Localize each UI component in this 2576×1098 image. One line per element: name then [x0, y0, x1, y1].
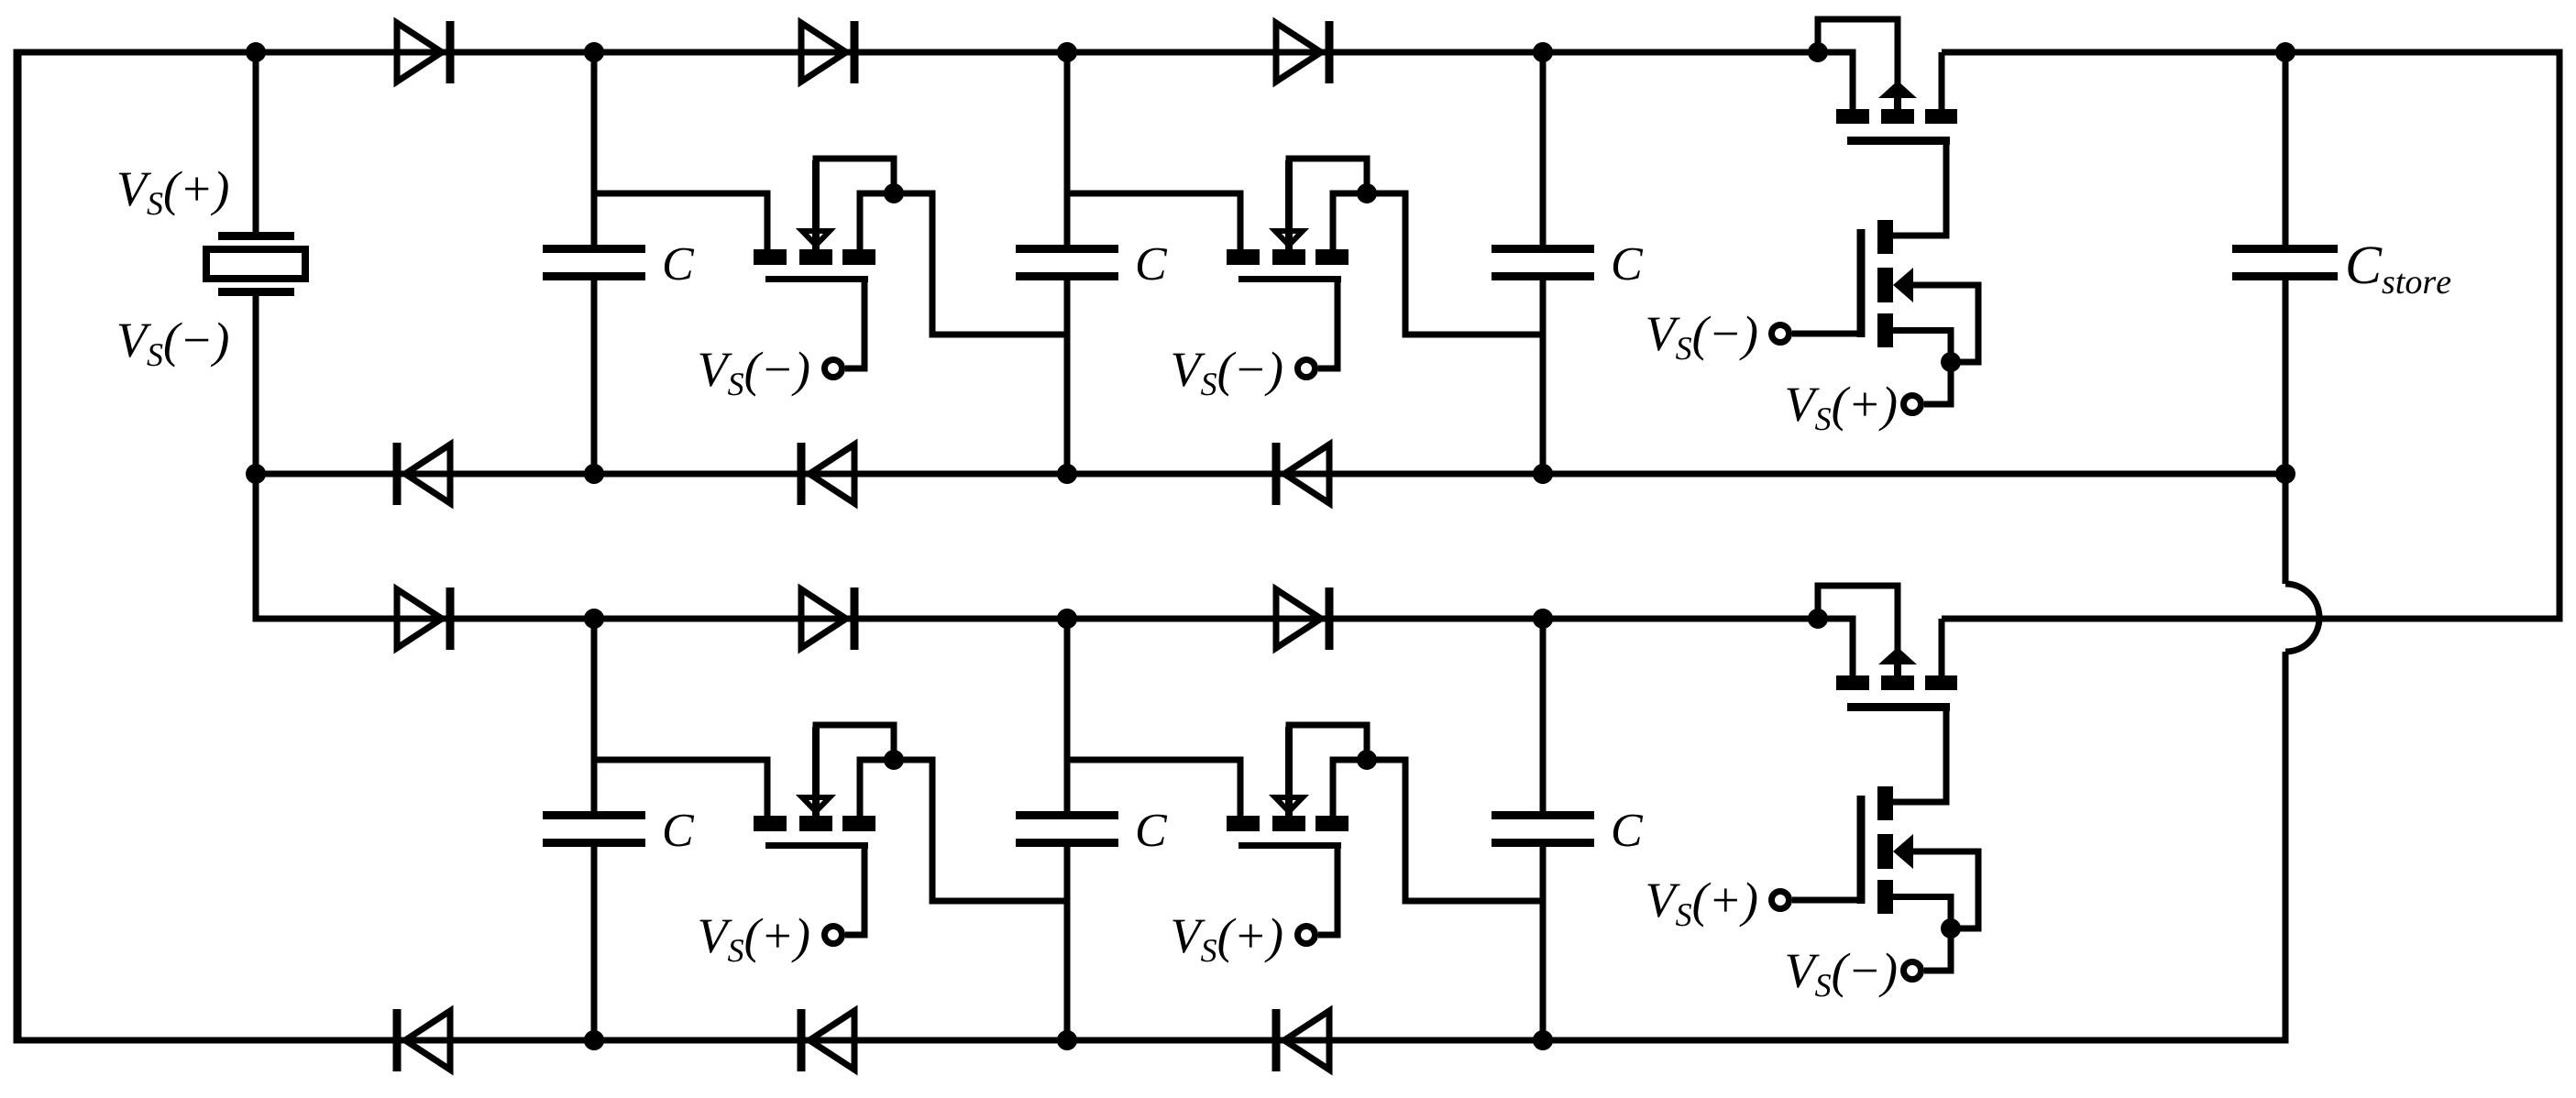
capacitor Cstore bottom lead — [2283, 280, 2289, 584]
label C value of C6 — [1613, 815, 1643, 847]
node mid-rail junction — [1533, 464, 1553, 484]
transistor Q3 source-bulk bracket — [1818, 586, 1898, 651]
wire M1 gate lead — [845, 280, 864, 369]
terminal Q4 gate control — [1772, 892, 1789, 909]
diode D10 (bottom rail, left-pointing) — [397, 1009, 450, 1071]
capacitor C4 top plate — [543, 811, 645, 819]
wire M2 gate lead — [1318, 280, 1338, 369]
wire left border — [14, 49, 22, 1044]
capacitor C4 bottom lead — [591, 847, 598, 1040]
capacitor C3 bottom lead — [1540, 280, 1547, 474]
transistor Q2 drain pad — [1877, 220, 1893, 254]
node Q2 source-bulk junction — [1941, 352, 1961, 372]
terminal M2 gate control — [1298, 360, 1316, 378]
transistor M1 tap wire from capacitor — [594, 193, 767, 249]
node C1 bottom-rail junction — [584, 464, 604, 484]
terminal Q4 source supply — [1904, 962, 1921, 980]
diode D9 (second rail, right-pointing) — [1276, 587, 1329, 650]
transistor Q1 bulk pad — [1881, 109, 1914, 124]
node M2 bulk-drain junction — [1357, 183, 1377, 203]
transistor Q3 source pad — [1836, 675, 1869, 690]
transistor M2 bulk arrow — [1275, 231, 1303, 246]
transistor Q2 bulk pad — [1877, 268, 1893, 302]
label C value of C3 — [1613, 248, 1643, 280]
wire top rail (right section) and right border — [1942, 52, 2559, 619]
capacitor C4 bottom plate — [543, 839, 645, 847]
transistor M4 tap wire from capacitor — [1067, 760, 1240, 816]
capacitor C2 bottom plate — [1016, 272, 1118, 280]
diode D5 (mid rail, left-pointing) — [801, 443, 854, 505]
transistor Q2 bulk arrow — [1893, 268, 1913, 302]
transistor M2 drain pad — [1316, 249, 1349, 265]
wire Q2 bulk tie — [1912, 285, 1978, 362]
transistor M2 bulk-drain bracket — [1289, 159, 1367, 231]
wire Q2 source tie — [1893, 331, 1951, 363]
transistor Q4 gate line — [1857, 796, 1866, 904]
capacitor C2 bottom lead — [1064, 280, 1071, 474]
node bottom-rail junction — [584, 1030, 604, 1050]
node C6 bottom-rail junction — [1533, 1030, 1553, 1050]
label VS(+) gate of M3 — [699, 918, 809, 963]
wire Q1 drain stub to rail — [1939, 52, 1945, 109]
node C4 bottom-rail junction — [584, 1030, 604, 1050]
wire Q1 source stub from rail — [1818, 52, 1853, 109]
node piezo top junction — [246, 42, 266, 62]
label VS(+) source of Q2 — [1787, 387, 1896, 432]
wire top rail (left section) — [14, 49, 1819, 56]
wire Q3 gate lead down — [1943, 710, 1950, 802]
transistor M3 bulk pad — [799, 816, 832, 831]
capacitor C5 bottom plate — [1016, 839, 1118, 847]
wire Q2 drain to Q1 gate — [1893, 233, 1950, 239]
transistor Q1 gate plate — [1847, 137, 1950, 145]
label C value of C1 — [665, 248, 694, 280]
capacitor C1 bottom plate — [543, 272, 645, 280]
transistor M4 bulk arrow shaft — [1285, 727, 1293, 816]
capacitor Cstore top plate — [2232, 245, 2338, 253]
transistor Q1 drain pad — [1925, 109, 1957, 124]
transistor M3 source pad — [754, 816, 787, 831]
node top-rail junction — [1533, 42, 1553, 62]
wire Q4 gate terminal lead — [1792, 897, 1861, 904]
wire Q3 drain stub to rail — [1939, 619, 1945, 675]
node M4 bulk-drain junction — [1357, 750, 1377, 770]
transistor M3 drain pad — [842, 816, 875, 831]
capacitor C3 top plate — [1492, 245, 1594, 253]
terminal Q2 source supply — [1904, 396, 1921, 413]
capacitor C6 top lead — [1540, 619, 1547, 811]
diode D2 (top rail, right-pointing) — [801, 21, 854, 83]
capacitor C6 bottom lead — [1540, 847, 1547, 1040]
transistor Q4 bulk arrow — [1893, 834, 1913, 869]
terminal M4 gate control — [1298, 927, 1316, 944]
transistor M1 bulk arrow shaft — [812, 160, 820, 249]
transistor M3 bulk-drain bracket — [816, 725, 894, 797]
transistor Q1 source pad — [1836, 109, 1869, 124]
node top-rail junction — [1057, 42, 1077, 62]
transistor Q1 source-bulk bracket — [1818, 19, 1898, 84]
node Cstore mid-rail junction — [2275, 464, 2295, 484]
piezo source PZ bottom lead — [253, 296, 259, 616]
transistor M1 drain pad — [842, 249, 875, 265]
transistor Q2 gate line — [1857, 229, 1866, 337]
label VS(+) gate of Q4 — [1647, 883, 1756, 928]
label VS(−) source of Q4 — [1787, 953, 1896, 998]
node Cstore top-rail junction — [2275, 42, 2295, 62]
transistor Q1 bulk arrow — [1878, 81, 1917, 98]
transistor Q4 source pad — [1877, 880, 1893, 914]
transistor M4 source pad — [1227, 816, 1260, 831]
capacitor C1 top plate — [543, 245, 645, 253]
diode D7 (second rail, right-pointing) — [397, 587, 450, 650]
capacitor C1 top lead — [591, 52, 598, 245]
transistor M2 gate plate — [1238, 276, 1341, 282]
label VS(+) piezo positive terminal — [119, 171, 228, 216]
node C5 bottom-rail junction — [1057, 1030, 1077, 1050]
wire Q4 source tie — [1893, 897, 1951, 929]
transistor M3 bulk arrow shaft — [812, 727, 820, 816]
wire second rail (left section) — [256, 292, 1818, 619]
terminal M3 gate control — [825, 927, 842, 944]
node second-rail junction — [584, 609, 604, 629]
wire M3 gate lead — [845, 846, 864, 936]
node second-rail junction — [1533, 609, 1553, 629]
capacitor C4 top lead — [591, 619, 598, 811]
piezo source PZ top plate — [218, 232, 294, 240]
transistor M3 bulk arrow — [802, 797, 830, 812]
node C3 top-rail junction — [1533, 42, 1553, 62]
capacitor C2 top plate — [1016, 245, 1118, 253]
wire Q2 gate terminal lead — [1792, 331, 1861, 337]
diode D3 (top rail, right-pointing) — [1276, 21, 1329, 83]
transistor M2 tap wire from capacitor — [1067, 193, 1240, 249]
diode D1 (top rail, right-pointing) — [397, 21, 450, 83]
capacitor C3 top lead — [1540, 52, 1547, 245]
transistor M3 gate plate — [765, 842, 868, 849]
node C5 top-rail junction — [1057, 609, 1077, 629]
capacitor C5 top plate — [1016, 811, 1118, 819]
wire bottom rail — [14, 652, 2286, 1040]
transistor Q4 drain pad — [1877, 786, 1893, 820]
diode D4 (mid rail, left-pointing) — [397, 443, 450, 505]
node bottom-rail junction — [1533, 1030, 1553, 1050]
diode D8 (second rail, right-pointing) — [801, 587, 854, 650]
capacitor Cstore bottom plate — [2232, 272, 2338, 280]
diode D6 (mid rail, left-pointing) — [1276, 443, 1329, 505]
wire Q3 source stub from rail — [1818, 619, 1853, 675]
node C2 bottom-rail junction — [1057, 464, 1077, 484]
label VS(−) piezo negative terminal — [119, 323, 228, 368]
capacitor C6 bottom plate — [1492, 839, 1594, 847]
node C3 bottom-rail junction — [1533, 464, 1553, 484]
piezo source PZ body — [206, 249, 305, 279]
transistor M2 bulk pad — [1272, 249, 1305, 265]
capacitor C2 top lead — [1064, 52, 1071, 245]
node bottom-rail junction — [1057, 1030, 1077, 1050]
transistor Q3 bulk arrow shaft — [1894, 662, 1901, 675]
node Q3 source junction on rail — [1808, 609, 1828, 629]
terminal M1 gate control — [825, 360, 842, 378]
transistor M4 bulk-drain bracket — [1289, 725, 1367, 797]
capacitor Cstore top lead — [2283, 52, 2289, 245]
node C2 top-rail junction — [1057, 42, 1077, 62]
capacitor C6 top plate — [1492, 811, 1594, 819]
label VS(−) gate of M1 — [699, 352, 809, 397]
wire M4 gate lead — [1318, 846, 1338, 936]
capacitor C1 bottom lead — [591, 280, 598, 474]
node C6 top-rail junction — [1533, 609, 1553, 629]
transistor M1 bulk arrow — [802, 231, 830, 246]
diode D11 (bottom rail, left-pointing) — [801, 1009, 854, 1071]
node Q1 source junction on rail — [1808, 42, 1828, 62]
wire Q4 drain to Q3 gate — [1893, 799, 1950, 806]
transistor Q3 gate plate — [1847, 703, 1950, 711]
transistor Q3 bulk arrow — [1878, 647, 1917, 664]
transistor Q1 bulk arrow shaft — [1894, 95, 1901, 109]
transistor Q4 bulk pad — [1877, 834, 1893, 869]
terminal Q2 gate control — [1772, 325, 1789, 343]
transistor M1 source pad — [754, 249, 787, 265]
label VS(−) gate of M2 — [1172, 352, 1282, 397]
label Cstore value — [2348, 247, 2450, 293]
node C1 top-rail junction — [584, 42, 604, 62]
piezo source PZ bottom plate — [218, 288, 294, 296]
transistor M4 bulk arrow — [1275, 797, 1303, 812]
wire Q4 source terminal lead — [1924, 928, 1951, 971]
wire Q4 bulk tie — [1912, 851, 1978, 928]
capacitor C5 bottom lead — [1064, 847, 1071, 1040]
piezo source PZ top lead — [253, 52, 259, 232]
node M1 bulk-drain junction — [884, 183, 904, 203]
transistor M4 bulk pad — [1272, 816, 1305, 831]
capacitor C3 bottom plate — [1492, 272, 1594, 280]
transistor Q3 drain pad — [1925, 675, 1957, 690]
transistor Q3 bulk pad — [1881, 675, 1914, 690]
transistor Q2 source pad — [1877, 313, 1893, 347]
node M3 bulk-drain junction — [884, 750, 904, 770]
node mid-rail junction — [584, 464, 604, 484]
wire hop over second rail — [2285, 584, 2319, 652]
label C value of C5 — [1138, 815, 1167, 847]
node C4 top-rail junction — [584, 609, 604, 629]
transistor M1 bulk pad — [799, 249, 832, 265]
capacitor C5 top lead — [1064, 619, 1071, 811]
transistor M4 gate plate — [1238, 842, 1341, 849]
wire M4 drain to next stage — [1333, 760, 1540, 901]
transistor M4 drain pad — [1316, 816, 1349, 831]
transistor M2 bulk arrow shaft — [1285, 160, 1293, 249]
wire Q2 source terminal lead — [1924, 362, 1951, 404]
wire M1 drain to next stage — [860, 193, 1067, 335]
wire M3 drain to next stage — [860, 760, 1067, 901]
wire M2 drain to next stage — [1333, 193, 1540, 335]
diode D12 (bottom rail, left-pointing) — [1276, 1009, 1329, 1071]
node second-rail junction — [1057, 609, 1077, 629]
transistor M1 gate plate — [765, 276, 868, 282]
wire mid rail (top half) — [256, 471, 2285, 478]
transistor M1 bulk-drain bracket — [816, 159, 894, 231]
label C value of C2 — [1138, 248, 1167, 280]
transistor M2 source pad — [1227, 249, 1260, 265]
node top-rail junction — [584, 42, 604, 62]
node piezo mid-rail junction — [246, 464, 266, 484]
node Q4 source-bulk junction — [1941, 918, 1961, 939]
label C value of C4 — [665, 815, 694, 847]
node mid-rail junction — [1057, 464, 1077, 484]
transistor M3 tap wire from capacitor — [594, 760, 767, 816]
label VS(−) gate of Q2 — [1647, 316, 1756, 361]
label VS(+) gate of M4 — [1172, 918, 1282, 963]
wire Q1 gate lead down — [1943, 144, 1950, 236]
